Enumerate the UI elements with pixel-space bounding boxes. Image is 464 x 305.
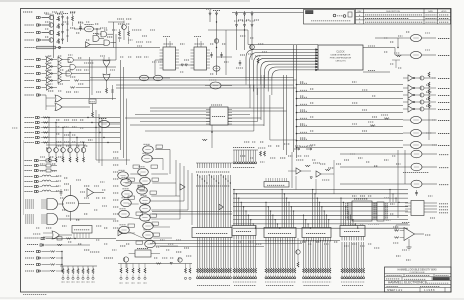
- wire: [46, 238, 116, 240]
- transistor Q1: [49, 15, 53, 19]
- wire input: [340, 153, 411, 155]
- resistor term: [317, 268, 319, 273]
- wire: [395, 225, 397, 231]
- wire pin left: [160, 49, 164, 51]
- wire pin down: [294, 238, 296, 242]
- wire pin up: [279, 178, 281, 182]
- wire resistor tick: [225, 163, 227, 168]
- resistor R35: [50, 270, 55, 272]
- wire pin left: [347, 212, 352, 214]
- wire drop: [250, 150, 252, 161]
- input connector J3-3: [37, 72, 41, 74]
- input connector J3-6: [37, 94, 41, 96]
- output label WJT: [438, 88, 450, 90]
- wire: [42, 32, 50, 34]
- OR gate U15: [52, 231, 60, 239]
- wire: [144, 264, 146, 269]
- wire pin: [384, 211, 388, 213]
- wire matrix drop: [323, 211, 325, 228]
- wire: [408, 239, 410, 247]
- connector pin: [310, 277, 312, 279]
- wire rail: [233, 149, 258, 151]
- wire: [42, 17, 50, 19]
- wire resistor tick: [227, 163, 229, 168]
- wire long to mid section: [73, 59, 116, 61]
- wire gate input: [41, 214, 47, 216]
- buffer U34: [408, 92, 413, 98]
- resistor term: [227, 268, 229, 273]
- driver gate U31: [411, 51, 422, 58]
- wire pin down: [363, 237, 365, 241]
- PLL block U14: [72, 226, 92, 234]
- resistor term: [213, 268, 215, 273]
- svg-text:CLOCK: CLOCK: [336, 51, 345, 54]
- wire input pin: [405, 202, 411, 204]
- wire pin down: [303, 238, 305, 242]
- resistor term: [201, 268, 203, 273]
- wire: [52, 73, 57, 75]
- connector pin: [250, 277, 252, 279]
- wire comb drop: [310, 240, 312, 268]
- wire: [297, 238, 299, 250]
- wire: [83, 152, 85, 157]
- wire matrix drop: [326, 215, 328, 227]
- resistor term: [319, 268, 321, 273]
- input connector J4-4: [36, 131, 40, 133]
- wire: [128, 203, 138, 205]
- junction dot: [244, 29, 245, 30]
- connector pin: [294, 277, 296, 279]
- resistor R74: [132, 268, 134, 273]
- capacitors beside Q21: [211, 52, 213, 58]
- connector pin: [324, 277, 326, 279]
- value label box: [128, 178, 135, 181]
- wire gate input: [41, 218, 47, 220]
- wire comb drop: [275, 240, 277, 268]
- wire comb drop: [243, 240, 245, 268]
- wire: [394, 48, 396, 56]
- driver gate U39: [411, 141, 422, 148]
- value label box: [128, 196, 135, 199]
- wire: [125, 182, 141, 184]
- wire: [269, 95, 271, 140]
- filter FL4: [57, 237, 62, 240]
- resistor term: [272, 268, 274, 273]
- wire: [130, 173, 140, 175]
- wire comb drop: [360, 242, 362, 268]
- driver gate WRT DATA: [411, 163, 422, 171]
- connector pin: [199, 277, 201, 279]
- feedback cap above op-amp: [402, 222, 410, 224]
- one-shot gate U61: [119, 210, 130, 217]
- wire fan drop: [267, 80, 269, 92]
- filter FL3: [46, 169, 51, 172]
- wire bus vertical 6: [286, 75, 288, 155]
- input connector J4-2: [36, 121, 40, 123]
- wire bus vertical 1: [293, 45, 295, 152]
- wire output: [422, 183, 437, 185]
- input resistor R60: [394, 230, 399, 232]
- value label box: [152, 222, 159, 225]
- wire: [253, 85, 255, 132]
- wire riser: [187, 170, 189, 210]
- wire output pin: [424, 208, 437, 210]
- wire pin right: [228, 112, 232, 114]
- wire comb drop: [287, 240, 289, 268]
- wire gate input: [41, 203, 47, 205]
- transistor Q51: [178, 258, 182, 262]
- wire pin right: [176, 58, 180, 60]
- wire: [129, 232, 142, 238]
- capacitor C5: [80, 24, 82, 31]
- connector pin P40: [62, 277, 64, 279]
- one-shot gate U60: [140, 205, 151, 212]
- wire: [52, 80, 57, 82]
- wire: [162, 159, 164, 171]
- input label row B4: [25, 80, 35, 82]
- resistor term: [348, 268, 350, 273]
- wire pin down: [250, 236, 252, 240]
- wire resistor tick: [208, 163, 210, 168]
- resistor R16: [43, 127, 48, 129]
- wire joining rail: [61, 252, 63, 272]
- wire matrix drop: [277, 224, 279, 228]
- resistor pullup: [428, 89, 430, 94]
- input label row B2: [25, 66, 35, 68]
- wire pin: [76, 233, 78, 238]
- signal arrow 2: [306, 148, 312, 150]
- wire input: [403, 87, 408, 89]
- wire drop: [220, 238, 222, 269]
- driver gate U30: [411, 34, 422, 41]
- resistor R73: [126, 268, 128, 273]
- wire comb drop: [272, 240, 274, 268]
- wire pin left: [206, 109, 210, 111]
- wire comb drop: [235, 240, 237, 268]
- wire pin down: [275, 238, 277, 242]
- value label box: [136, 241, 143, 244]
- resistor term: [235, 268, 237, 273]
- resistor R21: [55, 157, 57, 162]
- wire riser: [183, 166, 185, 201]
- wire: [152, 211, 232, 213]
- note symbol circle 2: [343, 15, 346, 18]
- scan streak top edge: [0, 0, 250, 2]
- wire comb drop: [312, 240, 314, 268]
- wire gate input: [41, 201, 47, 203]
- wire feed: [297, 140, 404, 142]
- input connector J3-5: [37, 86, 41, 88]
- transistor Q2: [49, 23, 53, 27]
- wire pin: [88, 233, 90, 238]
- connector pin: [189, 277, 191, 279]
- wire matrix drop: [243, 207, 245, 226]
- wire matrix drop: [283, 194, 285, 228]
- connector pin: [235, 277, 237, 279]
- wire: [125, 262, 127, 268]
- input row F2: [27, 244, 38, 246]
- input connector J4-3: [36, 126, 40, 128]
- wire comb drop: [291, 240, 293, 268]
- connector pin: [317, 277, 319, 279]
- wire: [321, 173, 334, 175]
- wire: [51, 186, 58, 188]
- wire: [76, 87, 90, 89]
- connector pin: [284, 277, 286, 279]
- wire: [92, 104, 94, 113]
- filter FL1: [46, 159, 51, 162]
- wire: [151, 173, 168, 175]
- wire pin right: [372, 208, 377, 210]
- resistor R40a: [58, 39, 60, 44]
- wire pin right: [176, 49, 180, 51]
- input label row B1: [25, 59, 35, 61]
- wire bus fan: [250, 53, 316, 81]
- connector pin: [201, 277, 203, 279]
- transistor Q10: [47, 148, 52, 153]
- wire comb drop: [319, 240, 321, 268]
- connector pin mid: [247, 162, 249, 164]
- wire: [52, 87, 57, 89]
- wire pin right: [228, 121, 232, 123]
- wire matrix row: [233, 197, 408, 199]
- wire comb drop: [307, 240, 309, 268]
- wire: [395, 60, 397, 68]
- wire matrix drop: [354, 224, 356, 226]
- resistor term: [356, 268, 358, 273]
- wire pin down: [279, 238, 281, 242]
- input label row E2: [25, 181, 34, 183]
- svg-text:CIRCUITS: CIRCUITS: [335, 61, 346, 63]
- wire pin down: [272, 238, 274, 242]
- resistor term: [310, 268, 312, 273]
- wire: [200, 41, 202, 47]
- wire pin up: [270, 178, 272, 182]
- wire: [72, 266, 74, 269]
- wire resistor tick: [211, 163, 213, 168]
- wire comb drop: [315, 240, 317, 268]
- wire fan drop: [264, 80, 266, 88]
- wire feed: [297, 84, 404, 86]
- wire: [209, 10, 211, 22]
- wire: [70, 212, 72, 222]
- wire pin left: [160, 55, 164, 57]
- wire: [42, 264, 51, 266]
- resistor term: [268, 268, 270, 273]
- wire comb drop: [282, 240, 284, 268]
- resistor on feed line: [384, 118, 389, 120]
- junction dot below U25: [211, 131, 213, 133]
- one-shot gate U58: [121, 199, 132, 206]
- IC U42: [377, 202, 384, 221]
- wire matrix drop: [250, 220, 252, 226]
- IC U63: [340, 226, 365, 237]
- wire feed rail: [60, 265, 97, 267]
- wire cross 9: [145, 130, 254, 132]
- wire pin: [384, 205, 388, 207]
- wire drop: [229, 238, 231, 269]
- wire: [107, 33, 113, 35]
- wire: [43, 236, 52, 238]
- wire fan drop: [245, 80, 247, 85]
- gate U23: [210, 82, 221, 89]
- wire matrix drop: [233, 190, 235, 226]
- wire: [123, 29, 125, 40]
- title block row5: [387, 285, 399, 287]
- resistor term: [282, 268, 284, 273]
- gate U22: [213, 66, 220, 71]
- wire pin right: [176, 55, 180, 57]
- wire: [103, 57, 105, 60]
- output label STEP: [438, 102, 450, 104]
- wire pin down: [322, 238, 324, 242]
- signal arrow 1: [294, 148, 300, 150]
- wire: [301, 170, 311, 172]
- resistor R82: [305, 165, 310, 167]
- wire pin right: [372, 212, 377, 214]
- caps cluster below rails: [239, 60, 241, 66]
- resistor R25: [83, 157, 85, 162]
- output label MHZ: [438, 38, 450, 40]
- wire base drop: [76, 138, 78, 148]
- connector pin: [265, 277, 267, 279]
- wire pin down: [282, 238, 284, 242]
- wire drop: [211, 238, 213, 269]
- title block part number row: [401, 277, 403, 281]
- wire: [154, 60, 156, 75]
- wire pin: [73, 233, 75, 238]
- wire long to mid section: [75, 66, 116, 68]
- wire pin: [82, 233, 84, 238]
- wire pin left: [347, 206, 352, 208]
- transistor Q33: [420, 86, 424, 90]
- input connector J4-1: [36, 116, 40, 118]
- capacitor column C1-C4: [56, 19, 60, 21]
- resistor R32: [50, 251, 55, 253]
- resistor R44: [82, 269, 84, 274]
- wire: [400, 230, 404, 232]
- wire matrix drop: [272, 215, 274, 227]
- connector pin: [303, 277, 305, 279]
- wire output: [422, 119, 437, 121]
- wire input: [340, 183, 411, 185]
- OR gate U6b: [55, 104, 62, 111]
- notes text between symbols: [337, 15, 343, 17]
- wire comb drop: [267, 240, 269, 268]
- input connector J1-3: [37, 31, 41, 33]
- connector pin: [229, 277, 231, 279]
- resistor R75: [138, 268, 140, 273]
- one-shot gate U52: [118, 172, 129, 179]
- NAND gate U5b: [70, 65, 75, 70]
- wire: [139, 190, 148, 192]
- input label row B3: [25, 73, 35, 75]
- transistor Q15: [81, 148, 86, 153]
- wire comb: [218, 175, 220, 228]
- connector pin: [277, 277, 279, 279]
- wire pin: [79, 233, 81, 238]
- wire output: [422, 37, 437, 39]
- wire pin: [384, 215, 388, 217]
- input connector J3-4: [37, 79, 41, 81]
- wire pin right: [228, 109, 232, 111]
- value label box: [151, 165, 158, 168]
- wire: [257, 88, 259, 122]
- wire comb drop: [305, 240, 307, 268]
- svg-text:HAMMELL ELECTRONICS: HAMMELL ELECTRONICS: [388, 281, 427, 285]
- buffer U2d: [86, 42, 91, 48]
- wire riser: [179, 163, 181, 219]
- wire pin down: [317, 238, 319, 242]
- wire: [415, 108, 420, 110]
- connector pin mid: [235, 162, 237, 164]
- wire matrix row: [233, 201, 408, 203]
- wire resistor tick: [222, 163, 224, 168]
- connector pin: [204, 277, 206, 279]
- wire: [363, 71, 390, 73]
- wire input pin: [405, 211, 411, 213]
- wire: [151, 209, 188, 211]
- one-shot gate U66: [145, 240, 156, 247]
- resistor R25a: [58, 24, 60, 29]
- resistor pullup: [428, 96, 430, 101]
- resistor R17a: [58, 16, 60, 21]
- transistor Q22: [250, 45, 255, 50]
- wire drop: [197, 238, 199, 269]
- resistor term: [358, 268, 360, 273]
- wire pin down: [346, 237, 348, 241]
- wire comb: [199, 175, 201, 228]
- wire matrix drop: [309, 227, 311, 230]
- wire pin up: [265, 178, 267, 182]
- wire: [363, 47, 395, 49]
- capacitor under WRT PROT gate: [416, 190, 418, 196]
- wire pin down: [360, 237, 362, 241]
- connector pin: [218, 277, 220, 279]
- wire comb drop: [327, 240, 329, 268]
- wire output: [424, 108, 436, 110]
- wire: [152, 213, 232, 215]
- wire: [211, 125, 213, 148]
- wire gate input: [41, 216, 47, 218]
- diode CR13: [209, 13, 211, 15]
- wire: [51, 160, 57, 162]
- wire cross 1: [116, 84, 294, 86]
- wire: [153, 237, 172, 239]
- arrowhead: [316, 49, 319, 51]
- wire: [42, 87, 47, 89]
- input label row C6: [25, 142, 35, 144]
- resistor R10: [74, 80, 79, 82]
- wire comb drop: [245, 240, 247, 268]
- title block row2 cells: [403, 274, 405, 277]
- wire: [62, 80, 70, 82]
- wire: [151, 195, 180, 197]
- resistor R76: [144, 268, 146, 273]
- wire matrix drop: [328, 220, 330, 228]
- wire pin left: [347, 204, 352, 206]
- wire pin left: [206, 123, 210, 125]
- wire: [163, 77, 171, 79]
- wire rail above comb: [196, 162, 232, 164]
- junction node A: [96, 28, 97, 29]
- wire pin right: [207, 67, 211, 69]
- arrowhead: [316, 57, 319, 59]
- diode CR17: [235, 25, 237, 27]
- wire input: [403, 144, 411, 146]
- wire: [152, 226, 170, 228]
- buffer U35: [408, 99, 413, 105]
